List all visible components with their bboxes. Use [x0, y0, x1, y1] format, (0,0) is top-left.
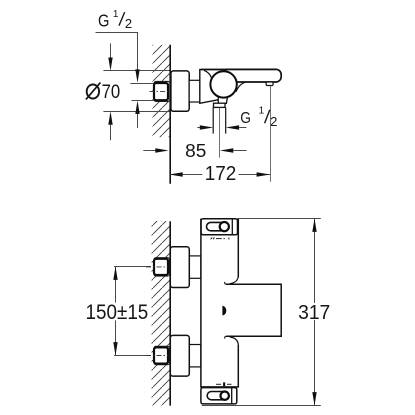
- svg-text:1: 1: [259, 106, 265, 117]
- svg-text:2: 2: [270, 114, 277, 129]
- svg-text:172: 172: [205, 163, 237, 185]
- svg-text:2: 2: [125, 16, 132, 31]
- svg-text:317: 317: [298, 302, 330, 324]
- svg-text:G: G: [240, 110, 251, 127]
- svg-text:85: 85: [185, 140, 206, 161]
- svg-text:70: 70: [102, 82, 121, 103]
- svg-text:1: 1: [113, 9, 119, 20]
- svg-text:150±15: 150±15: [86, 301, 149, 324]
- svg-text:G: G: [98, 10, 109, 30]
